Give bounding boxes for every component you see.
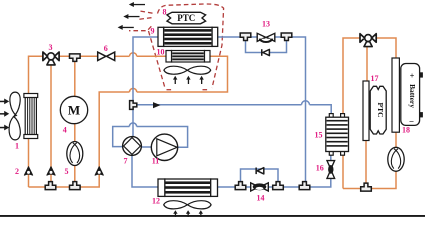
svg-text:M: M (68, 103, 80, 118)
svg-text:11: 11 (152, 156, 160, 165)
svg-text:1: 1 (15, 141, 19, 150)
svg-text:6: 6 (104, 44, 108, 53)
svg-text:17: 17 (371, 74, 379, 83)
svg-text:10: 10 (157, 48, 165, 57)
svg-text:8: 8 (163, 7, 167, 16)
svg-text:3: 3 (49, 43, 53, 52)
svg-text:7: 7 (124, 156, 128, 165)
svg-text:18: 18 (402, 126, 410, 135)
svg-text:15: 15 (315, 131, 323, 140)
svg-text:Battery: Battery (408, 84, 417, 108)
svg-text:5: 5 (65, 167, 69, 176)
svg-text:4: 4 (63, 125, 67, 134)
svg-text:16: 16 (316, 164, 324, 173)
svg-text:13: 13 (262, 20, 270, 29)
svg-text:9: 9 (151, 27, 155, 36)
svg-text:PTC: PTC (376, 103, 385, 118)
svg-text:+: + (410, 72, 415, 81)
svg-text:PTC: PTC (177, 13, 195, 23)
svg-text:14: 14 (257, 193, 265, 202)
svg-text:12: 12 (152, 196, 160, 205)
svg-text:2: 2 (15, 167, 19, 176)
